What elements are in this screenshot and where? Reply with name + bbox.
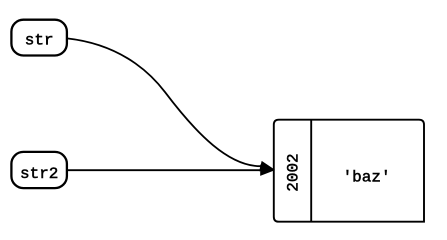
node str2	[11, 152, 67, 188]
svg-text:str2: str2	[20, 165, 58, 183]
wire str to box (curved spline)	[67, 38, 261, 166]
divider	[310, 120, 312, 222]
object box	[274, 120, 424, 222]
svg-text:'baz': 'baz'	[343, 168, 391, 186]
arrowhead of curved wire	[260, 162, 274, 171]
wire str2 to box (straight)	[67, 169, 261, 171]
svg-text:str: str	[25, 32, 54, 50]
arrowhead of straight wire	[261, 165, 274, 175]
svg-text:2002: 2002	[285, 153, 303, 191]
node str	[11, 20, 67, 56]
